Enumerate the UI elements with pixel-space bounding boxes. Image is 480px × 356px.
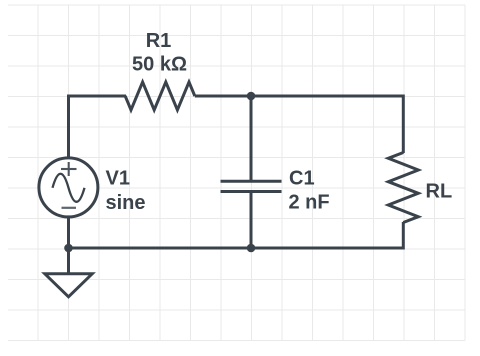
svg-text:50 kΩ: 50 kΩ <box>132 54 187 76</box>
wire V1 bottom to ground junction <box>67 217 70 249</box>
svg-text:2 nF: 2 nF <box>289 192 330 214</box>
resistor R1 <box>125 82 195 110</box>
wire top node down to C1 top plate <box>250 96 253 181</box>
junction dot at bottom node <box>247 244 256 253</box>
wire RL bottom to bottom-right corner to bottom node <box>251 222 403 248</box>
junction dot at ground node <box>64 244 73 253</box>
ground <box>45 274 92 297</box>
wire top-left corner: V1 top to R1 left lead <box>69 96 127 159</box>
resistor RL <box>388 153 418 223</box>
wire R1 right lead to top node <box>195 95 251 98</box>
svg-text:V1: V1 <box>106 168 130 190</box>
svg-text:RL: RL <box>426 181 453 203</box>
svg-text:R1: R1 <box>146 30 172 52</box>
wire bottom node to left rail junction <box>69 247 252 250</box>
wire C1 bottom plate to bottom node <box>250 192 253 249</box>
wire top node to top-right corner and down to RL top <box>251 96 403 153</box>
voltage source V1 <box>39 158 98 217</box>
wire ground junction to ground symbol <box>67 248 70 274</box>
svg-text:sine: sine <box>106 192 146 214</box>
svg-text:C1: C1 <box>289 168 315 190</box>
capacitor C1 <box>221 181 282 191</box>
junction dot at top node <box>247 92 256 101</box>
